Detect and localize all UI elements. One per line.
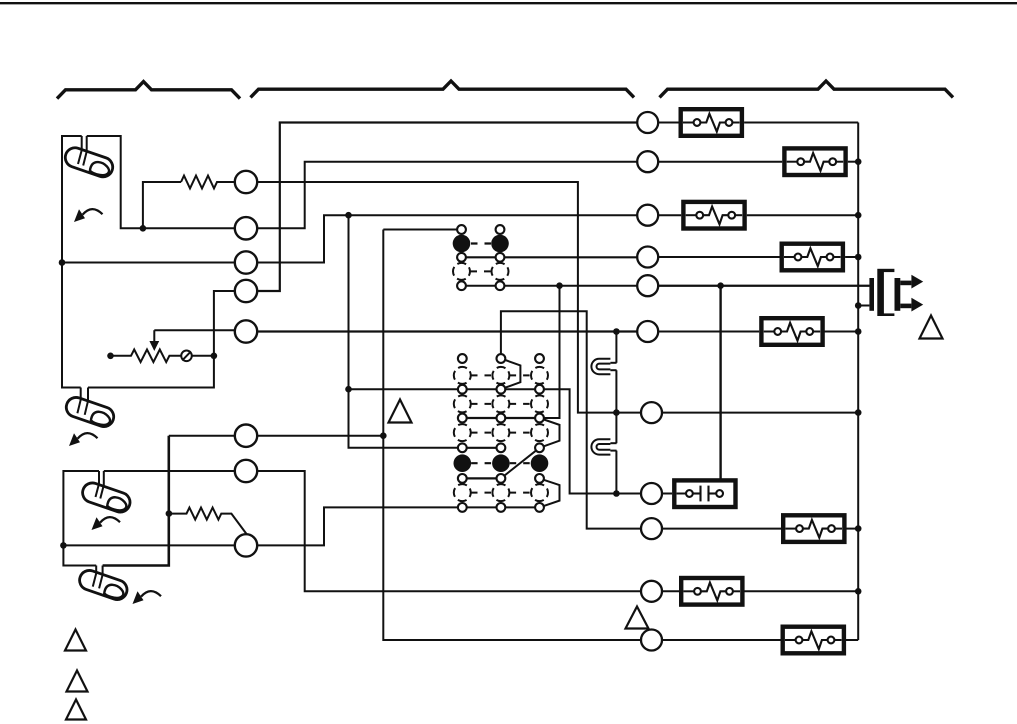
wire: terminal C row up to output row 3	[257, 215, 637, 262]
wire row3	[658, 214, 681, 216]
wire: terminal B row up to output row 2	[257, 162, 637, 229]
potentiometer RP1 left terminal and element	[111, 350, 182, 363]
node row6 staple top	[613, 328, 620, 335]
output terminal 8	[641, 483, 662, 504]
jumper jog col3 rows 478-507	[540, 478, 560, 507]
resistor R1 heat anticipator	[181, 176, 235, 189]
dashed pins row 404	[454, 395, 471, 412]
jumper clip J1	[591, 359, 616, 374]
node row F to vertical	[380, 432, 387, 439]
wire row10	[662, 590, 679, 592]
mercury switch S1 bulb	[63, 145, 116, 179]
wire row4	[658, 256, 779, 258]
wire row1 circle to box	[658, 122, 678, 124]
output terminal 3	[637, 205, 658, 226]
node pot left terminal	[107, 353, 114, 360]
heater relay box K2	[784, 148, 845, 175]
dashed links row 493	[471, 492, 492, 494]
node row H left	[60, 542, 67, 549]
mercury switch S2 bulb	[64, 395, 117, 429]
wire: pin row 418 bus	[462, 417, 539, 419]
wire bus to plug lower pin	[858, 305, 869, 307]
wire: row H from left bus node to terminal H	[63, 544, 234, 546]
heater relay box K3	[683, 202, 744, 229]
terminal D	[235, 280, 257, 302]
pin small c2r1	[496, 225, 505, 234]
mercury switch S3 bulb	[80, 480, 133, 514]
wire row2	[658, 161, 782, 163]
rotation arrow for S3	[92, 517, 121, 530]
wire: pin row 478 link c1-c2	[462, 477, 501, 479]
rotation arrow for S1	[74, 209, 103, 222]
pin small c2r5	[496, 281, 505, 290]
wire: dial to junction	[192, 355, 214, 357]
terminal E	[235, 320, 257, 342]
wire: pin row to output row 4	[462, 256, 638, 258]
brace (thermostat section)	[57, 82, 240, 99]
small pins row 507	[458, 503, 467, 512]
bus node row4	[855, 254, 862, 261]
terminal F	[235, 425, 257, 447]
node row3 branch	[345, 212, 352, 219]
heater relay box K6	[783, 515, 844, 542]
note triangle 5	[67, 671, 88, 692]
wire: terminal D row up to output row 1	[257, 123, 637, 292]
wire: terminal H row jog up to connector bottom row	[257, 507, 539, 545]
plug pin P1 filled	[453, 235, 471, 253]
bus vertical	[857, 123, 859, 641]
node row 389 branch	[345, 386, 352, 393]
wire: bulb S1 right lead to terminal B row	[87, 136, 235, 228]
terminal A	[235, 171, 257, 193]
bus node row7	[855, 409, 862, 416]
node R2 tap	[166, 510, 173, 517]
top page rule	[0, 2, 1017, 4]
bus node row6	[855, 328, 862, 335]
potentiometer wiper arrow	[153, 330, 155, 342]
wire row1 box to bus	[744, 122, 858, 124]
heater relay box K5	[761, 318, 822, 345]
terminal B	[235, 217, 257, 239]
wire: wiper to terminal E row	[154, 329, 235, 331]
jumper jog col3 rows 418-448	[540, 418, 560, 448]
small pins row 448	[458, 443, 467, 452]
node row8 staple bottom	[613, 490, 620, 497]
wire row6	[658, 331, 759, 333]
output terminal 5	[637, 275, 658, 296]
dashed pins row 433	[454, 424, 471, 441]
plug pin P2 filled	[491, 235, 509, 253]
rotation arrow for S2	[69, 433, 98, 446]
jumper clip J2	[591, 439, 616, 454]
jumper jog col2 rows 358-389	[501, 359, 521, 390]
filled pins row 463	[454, 454, 472, 472]
wire: col3 pin row 389 over to output row 8	[540, 389, 642, 493]
bus node plug feed	[855, 302, 862, 309]
rotation arrow for S4	[133, 591, 162, 604]
dashed links row 463 filled pins	[471, 462, 492, 464]
small pins row 418	[458, 414, 467, 423]
small pins row 389	[458, 385, 467, 394]
dashed links row 375	[471, 374, 492, 376]
mercury switch S3 electrodes	[96, 471, 100, 497]
wire row9	[662, 528, 781, 530]
output terminal 9	[641, 518, 662, 539]
pin small c1r1	[457, 225, 466, 234]
output terminal 6	[637, 321, 658, 342]
node row7 staple mid	[613, 409, 620, 416]
bus node row2	[855, 158, 862, 165]
output terminal 11	[641, 630, 662, 651]
wire: row 5 drop to column 3 pin	[540, 286, 560, 418]
wire: feed down to humidifier contact box	[719, 286, 721, 491]
dashed links row 433	[471, 432, 492, 434]
wire: branch up to heat anticipator	[143, 182, 181, 228]
wire: pin row 448 link c1-c2	[462, 447, 501, 449]
dashed pins row 375	[454, 367, 471, 384]
heater relay box K4	[782, 244, 843, 271]
wire: pin row to output row 5	[462, 285, 870, 287]
node pot right	[211, 353, 218, 360]
dashed links row 404	[471, 403, 492, 405]
output terminal 2	[637, 151, 658, 172]
receptacle pin dashed c1	[453, 263, 470, 280]
wire row11	[662, 639, 781, 641]
wire: bulb S3 right lead to terminal G	[104, 470, 235, 472]
power plug connector	[869, 269, 923, 316]
note triangle 3	[626, 607, 649, 629]
resistor R2 heat anticipator of thermostat 2	[169, 508, 247, 535]
dashed link lower pins	[471, 270, 492, 272]
pin small c1r5	[457, 281, 466, 290]
wire: bulb S4 left lead to left bus	[63, 471, 99, 566]
node row C left	[59, 259, 66, 266]
set-point dial symbol (slashed circle)	[181, 351, 192, 362]
node anticipator tap	[140, 225, 147, 232]
wire: pin row 389 bus	[349, 388, 540, 390]
wire: bulb S1 left lead to node on row C	[62, 136, 82, 263]
output terminal 10	[641, 581, 662, 602]
mercury switch S1 electrodes	[78, 136, 82, 164]
heater relay box K1	[681, 109, 742, 136]
small pins row 358	[458, 354, 467, 363]
dashed pins row 493	[454, 484, 471, 501]
node row5 to col3 drop	[556, 282, 563, 289]
wire: terminal F row to thick vertical	[169, 435, 235, 437]
heater relay box K8	[783, 627, 844, 654]
wire row7	[662, 412, 858, 414]
wire row5 to plug	[658, 285, 869, 287]
terminal H	[235, 534, 257, 556]
wire: terminal E row to output row 6	[257, 330, 637, 332]
wire: thick vertical down to bulb S4	[103, 436, 169, 566]
jumper staple vertical chain	[615, 332, 617, 363]
wire: long vertical from connector pin row to output row 11	[383, 230, 641, 641]
note triangle 4	[65, 630, 86, 651]
brace (subbase section)	[251, 81, 635, 97]
heater relay box K7	[681, 578, 742, 605]
wire: feed to pin column 1	[383, 229, 461, 231]
note triangle 1	[389, 400, 412, 423]
wire: terminal G row to output row 10	[257, 471, 641, 591]
wire row8 circle to box	[662, 493, 672, 495]
note triangle 6	[66, 700, 86, 720]
mercury switch S4 bulb	[77, 568, 130, 602]
humidifier contact box K9	[674, 480, 735, 507]
mercury switch S4 electrodes	[93, 566, 96, 587]
terminal G	[235, 460, 257, 482]
wire: terminal F row to long vertical	[257, 435, 383, 437]
bus node row9	[855, 525, 862, 532]
output terminal 7	[641, 402, 662, 423]
brace (equipment section)	[660, 81, 954, 97]
note triangle 2	[920, 316, 943, 339]
pin small c1r3	[457, 253, 466, 262]
terminal C	[235, 251, 257, 273]
bus node row10	[855, 588, 862, 595]
node row5 humidifier branch	[717, 282, 724, 289]
output terminal 4	[637, 247, 658, 268]
wire: connector feed from branch vertical	[349, 215, 463, 448]
small pins row 478	[458, 474, 467, 483]
receptacle pin dashed c2	[492, 263, 509, 280]
dashed link between plug pins P1/P2	[471, 242, 491, 244]
wire: terminal A row to output row 7	[257, 182, 641, 413]
wire: col2 pin up over to output row 9	[501, 311, 641, 528]
wire: left bus down to lower bulb S2	[62, 263, 81, 388]
wire: row C from node to terminal C	[62, 262, 235, 264]
pin small c2r3	[496, 253, 505, 262]
mercury switch S2 electrodes	[77, 388, 80, 414]
bus node row3	[855, 212, 862, 219]
wire: bulb S2 right lead to potentiometer node	[88, 291, 235, 388]
crossover link c2 row478 to c3 row448	[501, 448, 540, 479]
output terminal 1	[637, 112, 658, 133]
